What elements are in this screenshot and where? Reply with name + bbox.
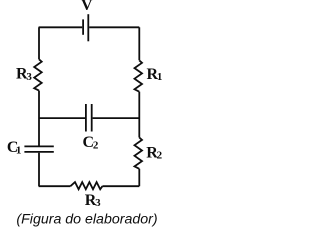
svg-text:R1: R1 (147, 66, 163, 83)
svg-text:C2: C2 (83, 134, 99, 151)
svg-text:(Figura do elaborador): (Figura do elaborador) (16, 212, 157, 228)
svg-text:V: V (81, 0, 93, 14)
svg-text:C1: C1 (7, 139, 21, 156)
svg-text:R3: R3 (85, 192, 101, 209)
svg-text:R3: R3 (16, 66, 32, 83)
svg-text:R2: R2 (146, 145, 162, 162)
